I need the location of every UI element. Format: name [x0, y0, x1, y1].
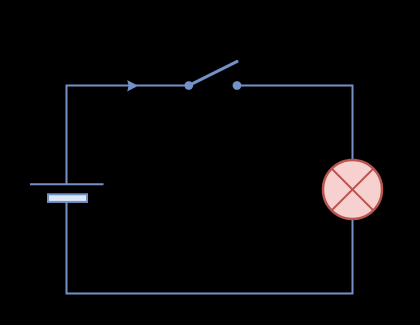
switch SW1: left pivot dot [184, 81, 193, 90]
wire: right rail lower segment (lamp down to bottom corner) [352, 220, 354, 295]
switch SW1: right contact dot [233, 81, 242, 90]
wire: top-left horizontal from left rail to switch [67, 85, 190, 87]
switch SW1: blade (open) [189, 62, 237, 86]
lamp L1: X filament stroke 1 [332, 169, 374, 211]
lamp L1: X filament stroke 2 [332, 169, 374, 211]
wire: left rail upper segment (top corner down to battery) [66, 85, 68, 185]
wire: switch right contact to top-right corner [237, 85, 353, 87]
battery B1: long positive plate [30, 183, 104, 185]
wire: bottom horizontal [66, 293, 354, 295]
wire: left rail lower segment (battery down to bottom corner) [66, 202, 68, 295]
lamp L1: bulb circle [323, 160, 382, 219]
arrowhead on top wire (current direction) [127, 80, 138, 91]
battery B1: short negative plate [48, 194, 87, 202]
wire: right rail upper segment (top corner down to lamp) [352, 85, 354, 160]
